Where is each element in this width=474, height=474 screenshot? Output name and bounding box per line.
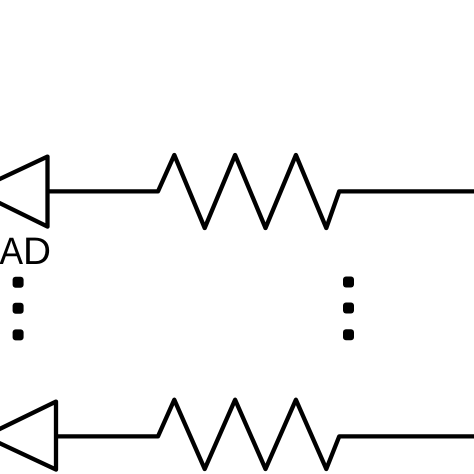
svg-text:D: D bbox=[23, 230, 51, 273]
svg-text:A: A bbox=[0, 230, 24, 272]
